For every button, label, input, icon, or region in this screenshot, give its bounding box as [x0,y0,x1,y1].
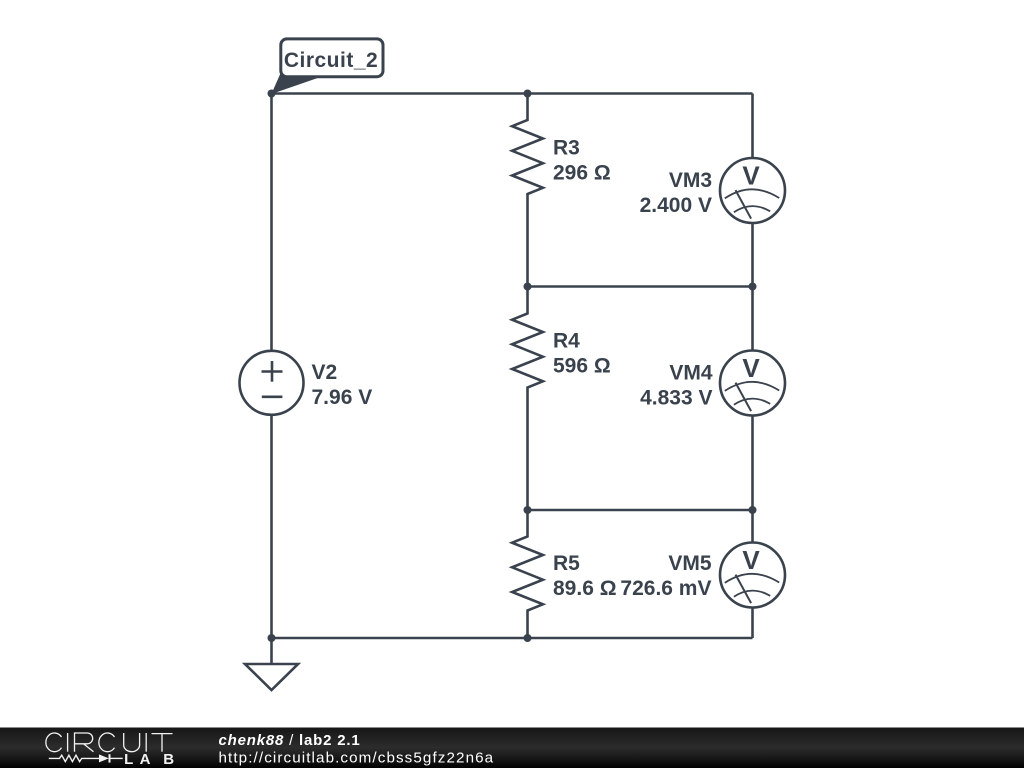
node dot bottom-middle [524,634,532,642]
voltmeter VM4 [720,351,785,416]
wire bottom rail [272,637,753,640]
resistor R3 [512,94,543,287]
node dot bottom-left [268,634,276,642]
svg-text:VM5: VM5 [668,552,712,575]
wire row2 rail [528,285,753,288]
voltmeter VM3 [720,158,785,223]
svg-text:R4: R4 [553,330,580,353]
wire right column (voltmeter string) [751,94,754,639]
node label Circuit_2 bubble [271,39,383,94]
svg-text:R3: R3 [553,137,580,160]
wire left column top (top rail to V2) [270,94,273,352]
node dot row3 right [749,506,757,514]
wire left column bottom (V2 to bottom rail) [270,415,273,638]
svg-text:596 Ω: 596 Ω [553,355,611,378]
svg-text:296 Ω: 296 Ω [553,162,611,185]
svg-text:B: B [163,751,174,768]
svg-text:V: V [742,161,760,191]
node dot top-left [268,90,276,98]
svg-text:V: V [742,353,760,383]
svg-text:R5: R5 [553,552,580,575]
svg-text:726.6 mV: 726.6 mV [620,577,711,600]
svg-text:Circuit_2: Circuit_2 [284,49,378,72]
logo CIRCUIT wordmark [46,733,173,752]
voltage source V2 [240,351,304,415]
svg-text:7.96 V: 7.96 V [312,386,373,409]
svg-text:2.400 V: 2.400 V [640,194,712,217]
svg-text:VM4: VM4 [669,362,713,385]
wire row3 rail [528,509,753,512]
logo resistor-diode squiggle [49,754,123,762]
logo LAB text [124,751,174,768]
node dot row3 middle [524,506,532,514]
svg-text:L: L [124,751,133,768]
svg-text:4.833 V: 4.833 V [640,387,712,410]
wire top rail node1 to node2 to top-right corner [272,92,753,95]
resistor R5 [512,510,543,638]
svg-text:89.6 Ω: 89.6 Ω [553,577,617,600]
svg-text:chenk88 / lab2 2.1: chenk88 / lab2 2.1 [219,732,361,749]
svg-text:V: V [742,545,760,575]
node dot top-middle [524,90,532,98]
svg-text:A: A [140,751,151,768]
ground [245,638,298,690]
node dot row2 middle [524,283,532,291]
svg-text:V2: V2 [312,361,338,384]
svg-text:VM3: VM3 [669,169,712,192]
svg-text:http://circuitlab.com/cbss5gfz: http://circuitlab.com/cbss5gfz22n6a [219,749,495,766]
node dot row2 right [749,283,757,291]
voltmeter VM5 [720,543,785,608]
resistor R4 [512,287,543,511]
